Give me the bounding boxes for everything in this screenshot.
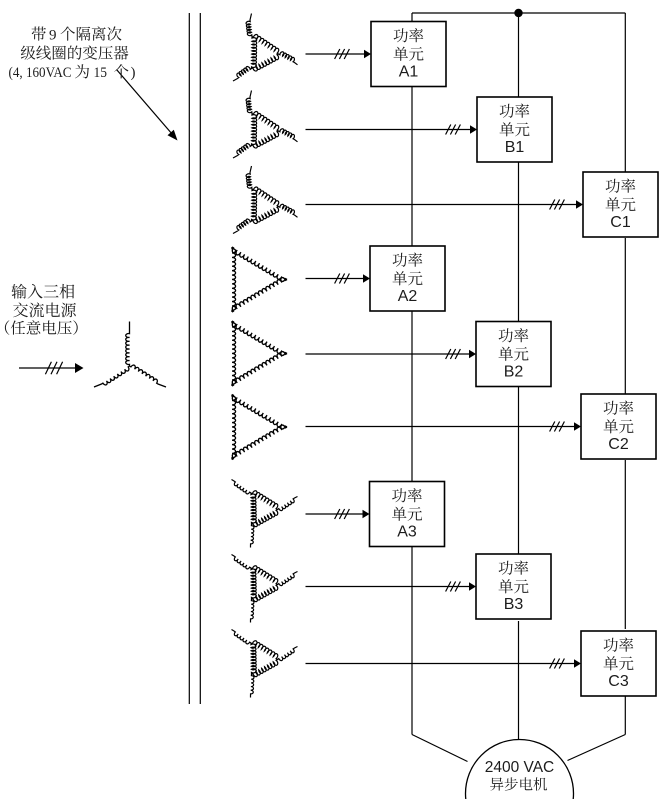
svg-text:15: 15 bbox=[94, 65, 108, 81]
svg-text:C2: C2 bbox=[608, 436, 629, 453]
svg-text:2400 VAC: 2400 VAC bbox=[485, 759, 555, 776]
svg-text:B1: B1 bbox=[505, 139, 525, 156]
svg-text:A3: A3 bbox=[397, 524, 417, 541]
svg-text:(4, 160VAC: (4, 160VAC bbox=[9, 65, 72, 81]
svg-text:A1: A1 bbox=[399, 64, 419, 81]
svg-text:B2: B2 bbox=[504, 364, 524, 381]
svg-text:A2: A2 bbox=[398, 288, 418, 305]
svg-text:C3: C3 bbox=[608, 673, 629, 690]
svg-text:): ) bbox=[131, 65, 136, 81]
svg-text:C1: C1 bbox=[610, 214, 631, 231]
svg-text:9: 9 bbox=[49, 28, 57, 44]
svg-text:B3: B3 bbox=[504, 596, 524, 613]
